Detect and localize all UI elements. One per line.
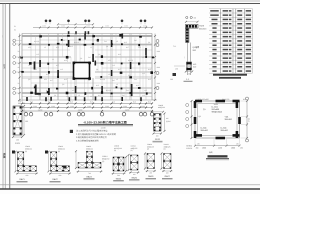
svg-text:-0.100~23.080剪力墙平法施工图: -0.100~23.080剪力墙平法施工图 [83,120,126,124]
svg-text:L2: L2 [90,46,92,49]
svg-text:YBZ8: YBZ8 [199,25,205,28]
svg-text:Q1: Q1 [80,57,82,60]
svg-text:YAZ1: YAZ1 [214,103,219,106]
svg-text:3x5: 3x5 [128,74,131,77]
svg-text:Φ8@100(2): Φ8@100(2) [212,111,223,114]
svg-text:GBZ1: GBZ1 [19,178,25,181]
svg-text:200: 200 [16,139,19,142]
svg-text:GDZ2: GDZ2 [155,138,161,141]
svg-text:KL3: KL3 [136,84,139,87]
svg-text:LL3: LL3 [142,94,145,97]
svg-text:KL7: KL7 [50,79,53,82]
svg-text:LL2: LL2 [138,46,141,49]
svg-text:Φ8@150: Φ8@150 [102,158,109,161]
svg-text:LL3: LL3 [112,64,115,67]
svg-text:150: 150 [175,68,178,71]
svg-text:4: 4 [68,166,69,169]
svg-text:LL3: LL3 [142,72,145,75]
svg-text:TL1: TL1 [173,45,176,48]
svg-text:注:详见: 注:详见 [186,145,192,148]
svg-text:3x5: 3x5 [88,56,91,59]
svg-text:1800: 1800 [231,147,235,150]
svg-text:Q1: Q1 [96,68,98,71]
svg-text:KL6: KL6 [133,100,136,103]
svg-text:结施: 结施 [2,153,6,159]
svg-text:1250: 1250 [218,147,222,150]
svg-text:AZ1: AZ1 [28,46,31,49]
svg-text:600: 600 [25,120,28,123]
svg-text:L1: L1 [34,84,36,87]
svg-text:KL1(2): KL1(2) [100,78,106,81]
svg-text:GBZ3: GBZ3 [86,176,92,179]
svg-text:2x4: 2x4 [62,39,65,42]
svg-text:KL6: KL6 [148,100,151,103]
svg-text:KL1(2): KL1(2) [106,89,112,92]
svg-text:2x4: 2x4 [34,68,37,71]
svg-text:GDZ2: GDZ2 [152,99,157,102]
svg-text:KL5: KL5 [110,95,113,98]
svg-text:L5: L5 [28,64,30,67]
svg-text:3x5: 3x5 [122,94,125,97]
svg-text:Q1: Q1 [148,41,150,44]
svg-text:240: 240 [188,73,191,76]
svg-text:KL2: KL2 [64,78,67,81]
svg-text:30: 30 [18,50,20,53]
svg-text:图号: 图号 [2,64,5,69]
svg-text:GBZ5: GBZ5 [131,177,137,180]
svg-text:AZ1: AZ1 [108,59,111,62]
svg-text:Φ8@100: Φ8@100 [158,106,165,109]
svg-text:Q2: Q2 [28,78,30,81]
svg-text:Q1: Q1 [199,115,201,118]
svg-text:L1: L1 [138,64,140,67]
svg-text:3.暗柱配筋见本图大样及列表注写: 3.暗柱配筋见本图大样及列表注写 [76,136,107,139]
svg-text:Q1: Q1 [106,45,108,48]
svg-text:L2: L2 [116,83,118,86]
svg-text:12Φ14: 12Φ14 [102,155,107,158]
svg-text:KL3: KL3 [46,73,49,76]
svg-text:L1: L1 [52,58,54,61]
svg-text:600x200: 600x200 [18,102,25,105]
svg-text:2x4: 2x4 [104,40,107,43]
svg-text:GBZ4: GBZ4 [116,177,122,180]
svg-text:KL6: KL6 [70,100,73,103]
svg-text:L5: L5 [116,40,118,43]
svg-text:L5: L5 [88,79,90,82]
svg-text:Q2: Q2 [130,95,132,98]
svg-text:KL3: KL3 [70,45,73,48]
svg-text:30: 30 [18,82,20,85]
svg-text:KL5: KL5 [46,89,49,92]
svg-text:Q2: Q2 [62,83,64,86]
svg-text:E2: E2 [14,29,16,32]
svg-text:LL2: LL2 [96,39,99,42]
svg-text:LL3: LL3 [36,53,39,56]
svg-text:AZ1: AZ1 [193,63,196,66]
svg-text:Φ8: Φ8 [194,17,196,20]
svg-text:Q1: Q1 [203,108,206,111]
svg-text:GBZ6: GBZ6 [148,175,154,178]
svg-text:E1: E1 [14,25,16,28]
svg-text:KL1(2): KL1(2) [74,41,80,44]
svg-text:KL6: KL6 [90,100,93,103]
svg-text:2x4: 2x4 [126,89,129,92]
svg-text:KL2: KL2 [96,84,99,87]
svg-text:L2: L2 [116,78,118,81]
svg-text:KL3: KL3 [148,78,151,81]
svg-text:AZ1: AZ1 [72,89,75,92]
svg-text:280: 280 [170,78,173,81]
svg-text:200x400: 200x400 [221,129,228,132]
svg-text:KL3: KL3 [124,41,127,44]
svg-text:1800: 1800 [202,147,206,150]
svg-text:KL2: KL2 [56,46,59,49]
svg-text:GBZ2: GBZ2 [52,178,58,181]
svg-text:KL7: KL7 [118,68,121,71]
svg-text:AZ1: AZ1 [44,78,47,81]
svg-text:KL7: KL7 [56,64,59,67]
svg-text:Q1: Q1 [54,94,56,97]
svg-text:@200: @200 [166,120,171,123]
svg-text:48: 48 [18,66,20,69]
svg-text:LL2: LL2 [144,89,147,92]
svg-text:KL7: KL7 [126,46,129,49]
svg-text:GBZ7: GBZ7 [164,175,170,178]
svg-text:L5: L5 [108,73,110,76]
svg-text:LL3: LL3 [66,95,69,98]
svg-text:L2: L2 [142,56,144,59]
svg-text:Q2: Q2 [98,53,100,56]
svg-text:注:1.本图所注尺寸均以毫米为单位: 注:1.本图所注尺寸均以毫米为单位 [76,129,107,132]
svg-text:4.未注明者同结施总说明: 4.未注明者同结施总说明 [76,140,99,143]
svg-text:KL7: KL7 [98,94,101,97]
svg-text:2x4: 2x4 [134,78,137,81]
svg-text:L5: L5 [78,94,80,97]
svg-text:标高: 标高 [209,151,213,154]
svg-text:KL1(2): KL1(2) [34,40,40,43]
svg-text:Φ8@200: Φ8@200 [222,98,229,101]
svg-text:KL1: KL1 [243,98,246,101]
svg-text:3700: 3700 [248,118,251,122]
svg-text:11G101: 11G101 [186,147,192,150]
svg-text:600x600: 600x600 [199,27,206,30]
svg-text:KL5: KL5 [148,68,151,71]
svg-text:3x5: 3x5 [134,39,137,42]
svg-text:2.剪力墙身配筋详见图集11G101-1有关说明: 2.剪力墙身配筋详见图集11G101-1有关说明 [76,133,116,136]
svg-text:300x300: 300x300 [225,118,232,121]
svg-text:3x5: 3x5 [112,79,115,82]
svg-text:LL3(1) 200x400: LL3(1) 200x400 [196,98,209,101]
svg-text:Q1墙厚: Q1墙厚 [193,46,200,49]
svg-text:L2: L2 [44,46,46,49]
svg-text:LL2: LL2 [38,94,41,97]
svg-text:LL2: LL2 [60,68,63,71]
svg-text:KL2: KL2 [118,53,121,56]
svg-text:Φ8: Φ8 [166,117,168,120]
svg-text:KL1(2): KL1(2) [128,59,134,62]
svg-text:KL5: KL5 [64,59,67,62]
svg-text:200x400: 200x400 [201,129,208,132]
svg-text:240: 240 [193,66,196,69]
svg-text:L1: L1 [90,95,92,98]
svg-text:1:100: 1:100 [100,127,106,130]
